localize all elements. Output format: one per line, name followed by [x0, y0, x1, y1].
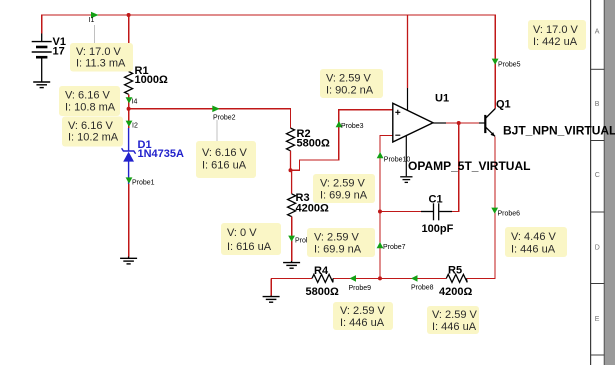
- resistor R3: [291, 170, 293, 194]
- probe Probe7: [377, 242, 384, 248]
- wire R3 bottom to ground: [291, 217, 293, 262]
- measurement label I1: [70, 43, 133, 72]
- op-amp U1: [393, 15, 446, 176]
- svg-text:V: 0 V: V: 0 V: [227, 227, 257, 239]
- wire R1 bottom / zener node: [128, 94, 130, 128]
- ground D1: [120, 257, 137, 264]
- svg-text:BJT_NPN_VIRTUAL: BJT_NPN_VIRTUAL: [503, 124, 615, 138]
- svg-text:V: 6.16 V: V: 6.16 V: [202, 147, 248, 159]
- wire op-amp minus input feedback column: [380, 135, 393, 278]
- svg-text:Probe5: Probe5: [498, 62, 521, 69]
- ground op-amp: [400, 177, 412, 183]
- svg-text:V: 2.59 V: V: 2.59 V: [340, 305, 386, 317]
- svg-text:B: B: [595, 101, 600, 108]
- ground R3 / probe4: [283, 261, 300, 268]
- svg-text:Probe7: Probe7: [383, 244, 406, 251]
- svg-text:I: 90.2 nA: I: 90.2 nA: [326, 85, 374, 97]
- probe Probe9: [350, 275, 357, 282]
- wire Q1 emitter down to R5: [466, 136, 495, 278]
- svg-text:I: 69.9 nA: I: 69.9 nA: [314, 244, 362, 256]
- svg-text:I: 616 uA: I: 616 uA: [227, 241, 272, 253]
- probe Probe1: [126, 177, 133, 183]
- svg-text:C: C: [595, 172, 600, 179]
- svg-text:5800Ω: 5800Ω: [306, 286, 339, 298]
- svg-text:I: 10.8 mA: I: 10.8 mA: [65, 102, 116, 114]
- svg-text:Probe9: Probe9: [349, 285, 372, 292]
- wire output to C1 right: [452, 123, 459, 212]
- svg-text:I4: I4: [132, 99, 138, 106]
- svg-text:17: 17: [53, 46, 65, 58]
- svg-text:Probe1: Probe1: [132, 180, 155, 187]
- leader line probe I1: [94, 25, 96, 44]
- svg-text:U1: U1: [435, 93, 449, 105]
- svg-text:V: 17.0 V: V: 17.0 V: [76, 46, 122, 58]
- svg-text:4200Ω: 4200Ω: [439, 286, 472, 298]
- svg-text:I2: I2: [132, 123, 138, 130]
- svg-text:I: 446 uA: I: 446 uA: [432, 321, 477, 333]
- V+ pin: [407, 88, 409, 111]
- ground R4: [263, 296, 280, 303]
- svg-text:D: D: [595, 245, 600, 252]
- svg-text:V: 6.16 V: V: 6.16 V: [68, 120, 114, 132]
- svg-text:V: 4.46 V: V: 4.46 V: [511, 231, 557, 243]
- svg-text:Probe3: Probe3: [341, 123, 364, 130]
- svg-text:I: 11.3 mA: I: 11.3 mA: [76, 58, 126, 70]
- resistor R1: [125, 72, 133, 95]
- measurement label Probe6: [505, 227, 567, 257]
- probe Probe5: [492, 59, 499, 65]
- resistor R2: [287, 128, 295, 151]
- measurement label I4: [59, 86, 120, 116]
- svg-text:I: 616 uA: I: 616 uA: [202, 160, 247, 172]
- measurement label Probe2: [196, 141, 256, 178]
- probe Probe10: [377, 152, 384, 158]
- probe Probe3: [336, 121, 343, 127]
- svg-text:V: 2.59 V: V: 2.59 V: [314, 232, 360, 244]
- V- pin: [405, 136, 407, 177]
- svg-text:E: E: [595, 316, 600, 323]
- svg-text:I: 446 uA: I: 446 uA: [511, 244, 556, 256]
- svg-text:I: 69.9 nA: I: 69.9 nA: [320, 190, 368, 202]
- measurement label Probe9: [333, 302, 393, 330]
- svg-text:I1: I1: [89, 17, 95, 24]
- wire R2-R3 jog to op-amp + input: [291, 110, 393, 170]
- svg-text:4200Ω: 4200Ω: [296, 203, 329, 215]
- capacitor C1: [421, 203, 452, 220]
- svg-text:C1: C1: [429, 194, 443, 206]
- measurement label Probe8: [427, 306, 479, 334]
- svg-text:5800Ω: 5800Ω: [297, 138, 330, 150]
- svg-text:OPAMP_5T_VIRTUAL: OPAMP_5T_VIRTUAL: [408, 159, 530, 173]
- svg-text:V: 2.59 V: V: 2.59 V: [326, 73, 372, 85]
- output pin: [433, 122, 446, 124]
- svg-text:R4: R4: [314, 265, 329, 277]
- wire op-amp output to Q1 base: [445, 122, 479, 124]
- svg-text:100pF: 100pF: [422, 223, 454, 235]
- wire R1 top: [128, 15, 130, 72]
- battery V1: [32, 34, 52, 82]
- measurement label Probe5: [528, 20, 586, 50]
- resistor R4: [312, 274, 333, 282]
- sheet border and zone column: [591, 0, 615, 365]
- probe Probe6: [491, 208, 498, 214]
- svg-text:Probe2: Probe2: [213, 115, 236, 122]
- probe Probe8: [411, 275, 418, 282]
- ground battery: [33, 82, 50, 88]
- wire top rail: [42, 15, 496, 296]
- probe Probe4: [288, 236, 295, 242]
- measurement label Probe4: [221, 223, 281, 255]
- diode D1 zener: [122, 128, 136, 184]
- measurement label I2: [62, 117, 123, 147]
- svg-text:V: 17.0 V: V: 17.0 V: [533, 24, 579, 36]
- svg-text:I: 446 uA: I: 446 uA: [340, 317, 385, 329]
- svg-text:V: 2.59 V: V: 2.59 V: [320, 178, 366, 190]
- svg-text:V: 6.16 V: V: 6.16 V: [65, 90, 111, 102]
- wire bottom R4-R5 run: [271, 277, 312, 279]
- svg-text:1N4735A: 1N4735A: [138, 148, 185, 160]
- svg-text:V: 2.59 V: V: 2.59 V: [432, 309, 478, 321]
- svg-text:Q1: Q1: [496, 99, 511, 111]
- wire R4 left to ground: [270, 278, 272, 295]
- svg-text:R5: R5: [448, 265, 462, 277]
- transistor Q1: [479, 109, 495, 137]
- probe Probe2: [212, 106, 220, 113]
- wire Q1 collector: [494, 15, 496, 109]
- svg-text:Probe8: Probe8: [411, 285, 434, 292]
- svg-text:Probe6: Probe6: [498, 211, 521, 218]
- svg-text:Probe10: Probe10: [384, 157, 411, 164]
- wire D1 bottom to ground: [128, 184, 130, 257]
- measurement label Probe3: [320, 69, 383, 98]
- probe I4: [126, 97, 133, 103]
- svg-text:I: 442 uA: I: 442 uA: [533, 36, 578, 48]
- measurement label Probe10: [313, 174, 375, 203]
- probe I1: [91, 12, 99, 19]
- svg-text:A: A: [595, 29, 600, 36]
- svg-text:I: 10.2 mA: I: 10.2 mA: [68, 132, 119, 144]
- wire zener node horizontal: [129, 109, 291, 128]
- svg-text:1000Ω: 1000Ω: [135, 74, 168, 86]
- leader line probe2: [216, 120, 218, 142]
- probe I2: [126, 121, 133, 127]
- resistor R5: [446, 274, 467, 282]
- wire C1 left lead red part: [380, 211, 421, 213]
- measurement label Probe7: [307, 228, 375, 257]
